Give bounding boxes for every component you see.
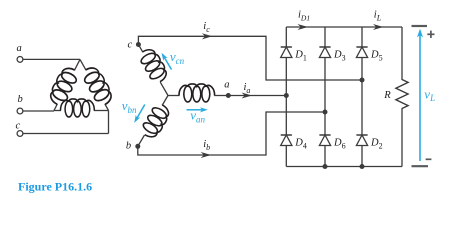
plus sign [427, 31, 434, 38]
current arrow i_b [201, 139, 212, 158]
bridge leg 1 wire [285, 27, 287, 167]
resistor R [383, 80, 408, 109]
delta winding coil right side [80, 59, 115, 110]
svg-text:b: b [18, 94, 23, 105]
bridge leg 3 wire [361, 27, 363, 167]
load terminal tick bottom [412, 165, 429, 167]
wire phase b : node b to bridge leg 2 [138, 112, 325, 155]
diode D1 [281, 47, 307, 63]
wire phase a : node a to bridge leg 1 [228, 95, 286, 97]
wye winding coil c-n [137, 45, 170, 96]
delta winding coil left side [47, 59, 80, 110]
wire terminal a to delta apex [23, 58, 80, 60]
junction bottom rail / leg 2 [323, 164, 328, 169]
current arrow i_a [242, 82, 253, 99]
svg-text:R: R [383, 90, 391, 101]
junction phase b / leg 2 [323, 110, 328, 115]
terminal c [16, 121, 23, 137]
junction bottom rail / leg 3 [360, 164, 365, 169]
current arrow i_L [373, 10, 384, 31]
diode D4 [281, 135, 307, 151]
wire phase c : node c to bridge leg 3 [138, 36, 362, 80]
bridge top rail wire [286, 26, 402, 28]
svg-text:Figure P16.1.6: Figure P16.1.6 [18, 180, 92, 194]
svg-text:a: a [224, 80, 229, 91]
current arrow i_D1 [298, 10, 311, 31]
bridge bottom rail wire [286, 166, 402, 168]
minus sign [426, 158, 432, 160]
svg-text:c: c [128, 40, 133, 51]
svg-text:a: a [17, 43, 22, 54]
node a [224, 80, 231, 99]
caption Figure P16.1.6 [18, 180, 92, 194]
wye winding coil n-a [168, 84, 228, 102]
svg-text:c: c [16, 121, 21, 132]
voltage arrow v_an [187, 107, 208, 124]
voltage arrow v_cn [162, 49, 185, 70]
load terminal tick top [412, 25, 428, 27]
current arrow i_c [202, 21, 213, 39]
junction phase c / leg 3 [360, 78, 365, 83]
junction phase a / leg 1 [284, 93, 289, 98]
node c [128, 40, 141, 51]
diode D2 [356, 135, 382, 151]
delta winding coil bottom side [54, 99, 109, 117]
wire terminal c to delta bottom-right [23, 111, 109, 134]
load branch wire right side [401, 27, 403, 167]
diode D5 [356, 47, 382, 63]
svg-text:b: b [126, 141, 131, 152]
voltage arrow v_L [417, 29, 435, 161]
diode D3 [319, 47, 345, 63]
diode D6 [319, 135, 345, 151]
terminal a [17, 43, 23, 62]
wye winding coil n-b [138, 96, 173, 147]
wire terminal b to delta bottom-left [23, 110, 54, 112]
voltage arrow v_bn [122, 98, 145, 123]
node b [126, 141, 140, 152]
terminal b [17, 94, 23, 114]
bridge leg 2 wire [324, 27, 326, 167]
